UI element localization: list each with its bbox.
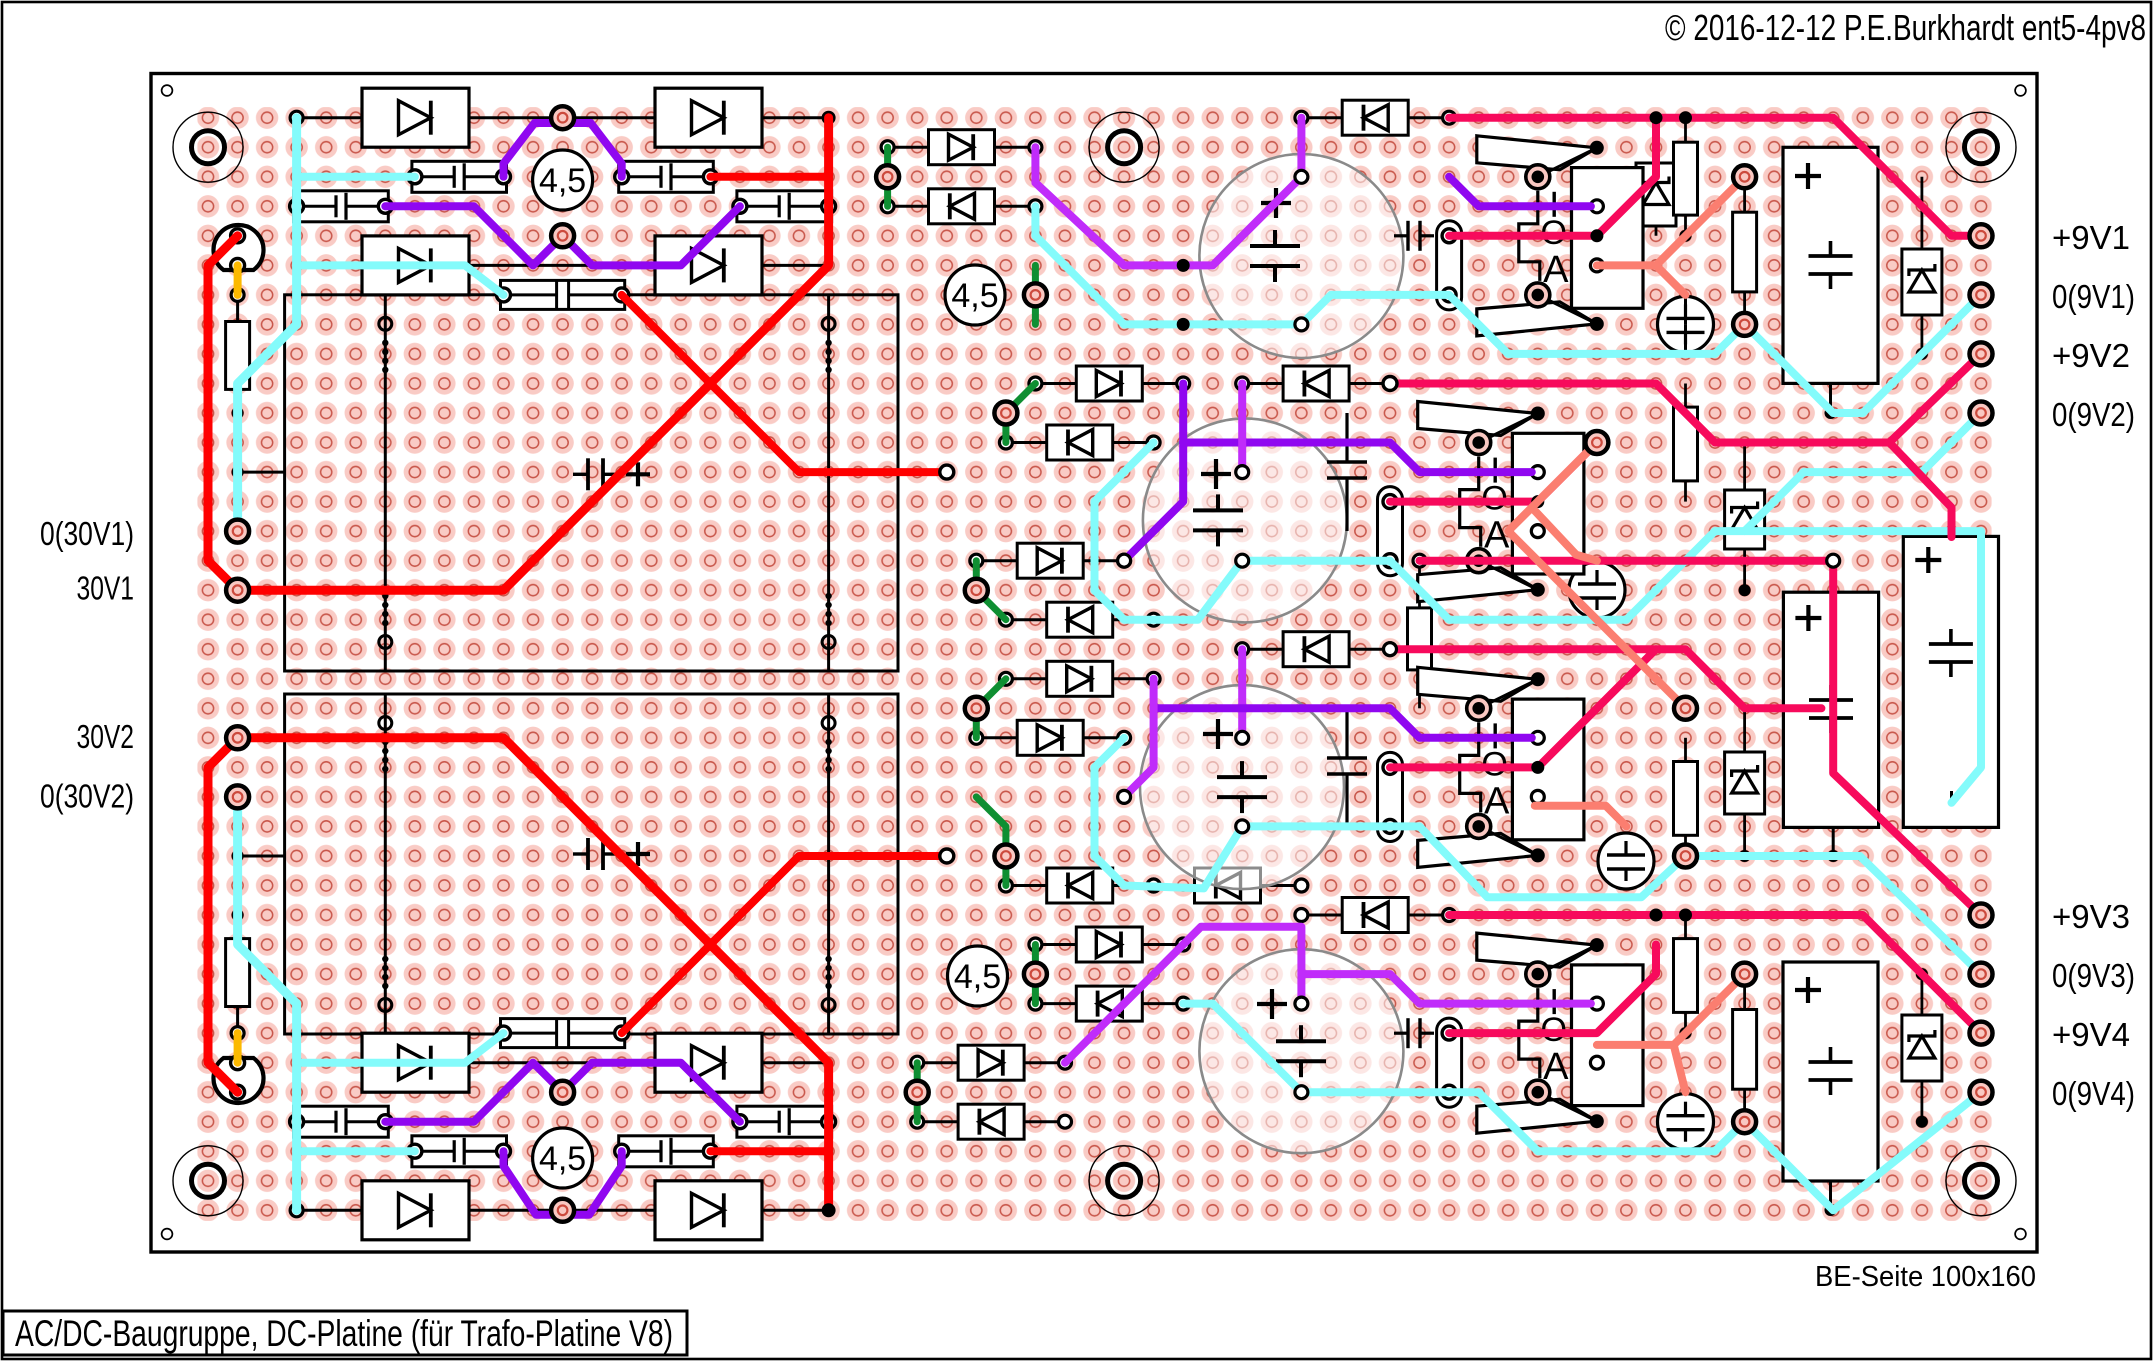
- svg-text:0(9V3): 0(9V3): [2052, 957, 2135, 994]
- svg-text:+9V2: +9V2: [2052, 337, 2130, 374]
- svg-text:+9V1: +9V1: [2052, 219, 2130, 256]
- svg-text:4,5: 4,5: [954, 958, 1001, 996]
- svg-text:4,5: 4,5: [951, 277, 998, 315]
- svg-text:+9V3: +9V3: [2052, 898, 2130, 935]
- svg-text:0(9V2): 0(9V2): [2052, 396, 2135, 433]
- svg-text:30V2: 30V2: [77, 718, 135, 755]
- svg-text:A: A: [1543, 1046, 1569, 1088]
- svg-text:AC/DC-Baugruppe, DC-Platine (f: AC/DC-Baugruppe, DC-Platine (für Trafo-P…: [15, 1313, 673, 1354]
- svg-text:A: A: [1484, 780, 1510, 822]
- svg-text:A: A: [1543, 249, 1569, 291]
- svg-text:© 2016-12-12 P.E.Burkhardt ent: © 2016-12-12 P.E.Burkhardt ent5-4pv8: [1665, 7, 2146, 48]
- svg-text:0(9V4): 0(9V4): [2052, 1075, 2135, 1112]
- svg-text:0(30V2): 0(30V2): [40, 778, 134, 815]
- svg-text:30V1: 30V1: [77, 570, 135, 607]
- svg-text:BE-Seite 100x160: BE-Seite 100x160: [1815, 1261, 2036, 1293]
- svg-text:4,5: 4,5: [539, 162, 586, 200]
- svg-text:0(9V1): 0(9V1): [2052, 278, 2135, 315]
- svg-text:+9V4: +9V4: [2052, 1016, 2130, 1053]
- svg-text:0(30V1): 0(30V1): [40, 515, 134, 552]
- svg-text:A: A: [1484, 515, 1510, 557]
- svg-text:4,5: 4,5: [539, 1140, 586, 1178]
